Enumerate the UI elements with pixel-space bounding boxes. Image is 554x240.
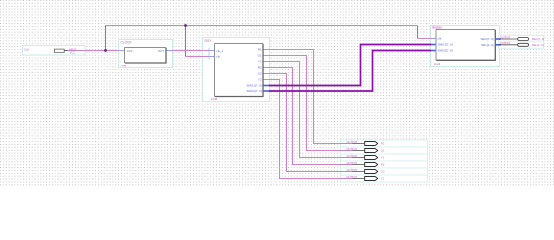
svg-text:G2: G2 — [381, 170, 385, 174]
svg-text:R2: R2 — [258, 66, 262, 70]
svg-text:clk: clk — [438, 36, 442, 40]
svg-text:G2: G2 — [258, 72, 262, 76]
svg-text:R1: R1 — [381, 142, 385, 146]
svg-text:SMG2[7..0]: SMG2[7..0] — [438, 49, 453, 53]
svg-text:inst3: inst3 — [434, 62, 441, 66]
svg-text:Y2: Y2 — [381, 177, 385, 181]
svg-text:SEG[7..0]: SEG[7..0] — [480, 37, 493, 41]
svg-text:OUTPUT: OUTPUT — [347, 140, 358, 144]
svg-text:inst: inst — [122, 63, 127, 67]
svg-text:inst5: inst5 — [211, 97, 218, 101]
svg-text:Y1: Y1 — [381, 156, 385, 160]
svg-text:OUTPUT: OUTPUT — [500, 35, 511, 39]
svg-text:G1: G1 — [381, 149, 385, 153]
svg-text:RGY: RGY — [205, 39, 213, 43]
svg-text:OUTPUT: OUTPUT — [347, 168, 358, 172]
svg-text:G1: G1 — [258, 54, 262, 58]
svg-text:CLK: CLK — [24, 48, 29, 52]
svg-text:INPUT: INPUT — [69, 47, 77, 51]
svg-text:VCC: VCC — [70, 51, 76, 55]
svg-text:clk_1: clk_1 — [216, 49, 223, 53]
svg-text:SMG1[7..0]: SMG1[7..0] — [246, 84, 261, 88]
svg-text:CLK: CLK — [127, 49, 133, 53]
svg-text:CLOCK: CLOCK — [121, 41, 133, 45]
svg-text:SEG[7..0]: SEG[7..0] — [532, 37, 545, 41]
svg-text:OUTPUT: OUTPUT — [347, 175, 358, 179]
svg-text:OUT: OUT — [158, 49, 165, 53]
svg-text:Y2: Y2 — [258, 78, 262, 82]
svg-text:SEL[2..0]: SEL[2..0] — [532, 43, 544, 47]
svg-text:clk: clk — [216, 55, 220, 59]
svg-text:SEL[2..0]: SEL[2..0] — [481, 43, 494, 47]
svg-text:SMG1[7..0]: SMG1[7..0] — [438, 43, 453, 47]
svg-text:OUTPUT: OUTPUT — [347, 161, 358, 165]
svg-text:OUTPUT: OUTPUT — [347, 154, 358, 158]
svg-text:OUTPUT: OUTPUT — [500, 41, 511, 45]
svg-text:SMG2[7..0]: SMG2[7..0] — [246, 89, 261, 93]
svg-text:R2: R2 — [381, 163, 385, 167]
svg-text:display: display — [432, 25, 442, 29]
svg-text:R1: R1 — [258, 48, 262, 52]
svg-text:Y1: Y1 — [258, 60, 262, 64]
svg-text:OUTPUT: OUTPUT — [347, 147, 358, 151]
